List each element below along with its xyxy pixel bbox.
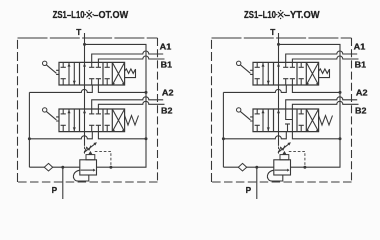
lever actuator of V1: [43, 61, 60, 74]
relief internal flow arrow: [81, 169, 94, 171]
manifold enclosure (dash-dot boundary): [212, 38, 352, 182]
wire: bypass vent to relief: [84, 132, 86, 146]
spool box 4 (crossed flows) of V1: [112, 62, 124, 85]
relief pilot line (dashed): [289, 151, 305, 167]
wire: V1 pressure feed (hops bypass): [223, 85, 286, 92]
check/filter diamond: [238, 163, 246, 171]
spool box 4 (crossed flows) of V2: [112, 109, 124, 132]
wire: neutral bypass V1->V2: [84, 85, 86, 109]
wire: work port A2: [92, 97, 164, 109]
wire: pressure riser: [222, 92, 224, 167]
title ZS1–L10#–YT.OW: [244, 10, 320, 21]
relief pilot line (dashed): [95, 151, 111, 167]
spool box 4 (crossed flows) of V4: [306, 109, 318, 132]
wire: V2 pressure feed (hops bypass): [223, 132, 286, 139]
svg-text:A2: A2: [162, 89, 174, 98]
svg-text:B2: B2: [355, 107, 367, 116]
relief internal flow arrow: [275, 169, 288, 171]
spool box 2 (neutral, bypass) of V4: [277, 109, 292, 132]
wire: V2 tank out: [292, 132, 340, 139]
wire: P port drop: [62, 167, 64, 199]
spool box 2 (neutral, bypass) of V2: [83, 109, 101, 132]
relief adjustment arrow: [84, 144, 95, 153]
svg-text:B1: B1: [355, 61, 367, 70]
relief spring seat: [86, 155, 95, 160]
junction T tap: [83, 43, 86, 46]
wire: work port B2: [98, 101, 164, 109]
wire: bypass vent to relief: [278, 132, 280, 146]
lever actuator of V2: [43, 108, 60, 121]
directional control valve V2: [43, 108, 139, 132]
lever actuator of V4: [237, 108, 254, 121]
svg-text:B2: B2: [161, 107, 173, 116]
svg-text:P: P: [246, 186, 252, 195]
return spring of V2: [125, 116, 139, 126]
svg-text:–YT.OW: –YT.OW: [285, 10, 320, 21]
svg-text:A1: A1: [160, 43, 172, 52]
return spring of V1: [125, 69, 136, 78]
svg-text:A1: A1: [354, 43, 366, 52]
junction V1 tank return: [145, 91, 148, 94]
svg-text:B1: B1: [161, 61, 173, 70]
title ZS1–L10#–OT.OW: [53, 10, 129, 21]
directional control valve V4: [237, 108, 333, 132]
wire: work port B1: [98, 56, 164, 62]
svg-text:A2: A2: [356, 89, 368, 98]
junction V2 tank return: [339, 137, 342, 140]
valve body envelope V1: [59, 62, 125, 85]
relief spring: [85, 146, 91, 152]
return spring of V4: [319, 116, 333, 126]
junction P tap: [61, 166, 64, 169]
relief valve body: [274, 160, 291, 175]
wire: V2 tank out: [98, 132, 146, 139]
svg-text:T: T: [270, 28, 275, 37]
wire: work port A1: [286, 51, 358, 62]
junction riser/V2 feed: [222, 137, 225, 140]
manifold enclosure (dash-dot boundary): [18, 38, 158, 182]
junction pilot/outlet: [109, 166, 112, 169]
relief adjustment arrow: [278, 144, 289, 153]
spool box 3 (carry-over blocked) of V2: [105, 109, 110, 132]
junction V1 tank return: [339, 91, 342, 94]
return spring of V3: [319, 69, 330, 78]
junction V2 tank return: [145, 137, 148, 140]
wire: work port B2: [292, 101, 358, 109]
spool box 3 (carry-over blocked) of V3: [299, 62, 304, 85]
svg-text:T: T: [76, 28, 81, 37]
valve body envelope V3: [253, 62, 319, 85]
spool box 2 (neutral, bypass) of V3: [277, 62, 295, 85]
spool box 3 (carry-over blocked) of V4: [299, 109, 304, 132]
valve body envelope V2: [59, 109, 125, 132]
check/filter diamond: [44, 163, 52, 171]
wire: V1 tank out: [292, 85, 340, 92]
wire: V1 tank out: [98, 85, 146, 92]
spool box 1 (shifted position) of V1: [61, 62, 76, 85]
wire: work port B1: [292, 56, 358, 62]
wire: work port A2: [286, 97, 358, 109]
valve body envelope V4: [253, 109, 319, 132]
directional control valve V1: [43, 61, 136, 85]
wire: inlet line: [223, 166, 273, 168]
svg-text:ZS1–L10: ZS1–L10: [53, 10, 85, 21]
spool box 2 (neutral, bypass) of V1: [83, 62, 101, 85]
svg-text:ZS1–L10: ZS1–L10: [244, 10, 276, 21]
junction riser/V2 feed: [28, 137, 31, 140]
relief valve body: [80, 160, 97, 175]
lever actuator of V3: [237, 61, 254, 74]
wire: P port drop: [256, 167, 258, 199]
spool box 4 (crossed flows) of V3: [306, 62, 318, 85]
directional control valve V3: [237, 61, 330, 85]
spool box 1 (shifted position) of V2: [61, 109, 76, 132]
wire: tank return gallery: [85, 44, 147, 167]
spool box 3 (carry-over blocked) of V1: [105, 62, 110, 85]
junction T tap: [277, 43, 280, 46]
svg-text:–OT.OW: –OT.OW: [93, 10, 128, 21]
wire: T port drop: [278, 33, 280, 62]
relief valve: [73, 142, 112, 181]
relief drain loop: [267, 170, 282, 181]
wire: T port drop: [84, 33, 86, 62]
spool box 1 (shifted position) of V4: [255, 109, 270, 132]
junction pilot/outlet: [303, 166, 306, 169]
wire: V1 pressure feed (hops bypass): [29, 85, 92, 92]
wire: inlet line: [29, 166, 79, 168]
relief spring seat: [280, 155, 289, 160]
wire: work port A1: [92, 51, 164, 62]
junction P tap: [255, 166, 258, 169]
relief spring: [279, 146, 285, 152]
spool box 1 (shifted position) of V3: [255, 62, 270, 85]
wire: tank return gallery: [279, 44, 341, 167]
relief valve: [267, 142, 306, 181]
relief drain loop: [73, 170, 88, 181]
wire: neutral bypass V1->V2: [278, 85, 280, 109]
svg-text:P: P: [52, 186, 58, 195]
wire: V2 pressure feed (hops bypass): [29, 132, 92, 139]
wire: pressure riser: [28, 92, 30, 167]
